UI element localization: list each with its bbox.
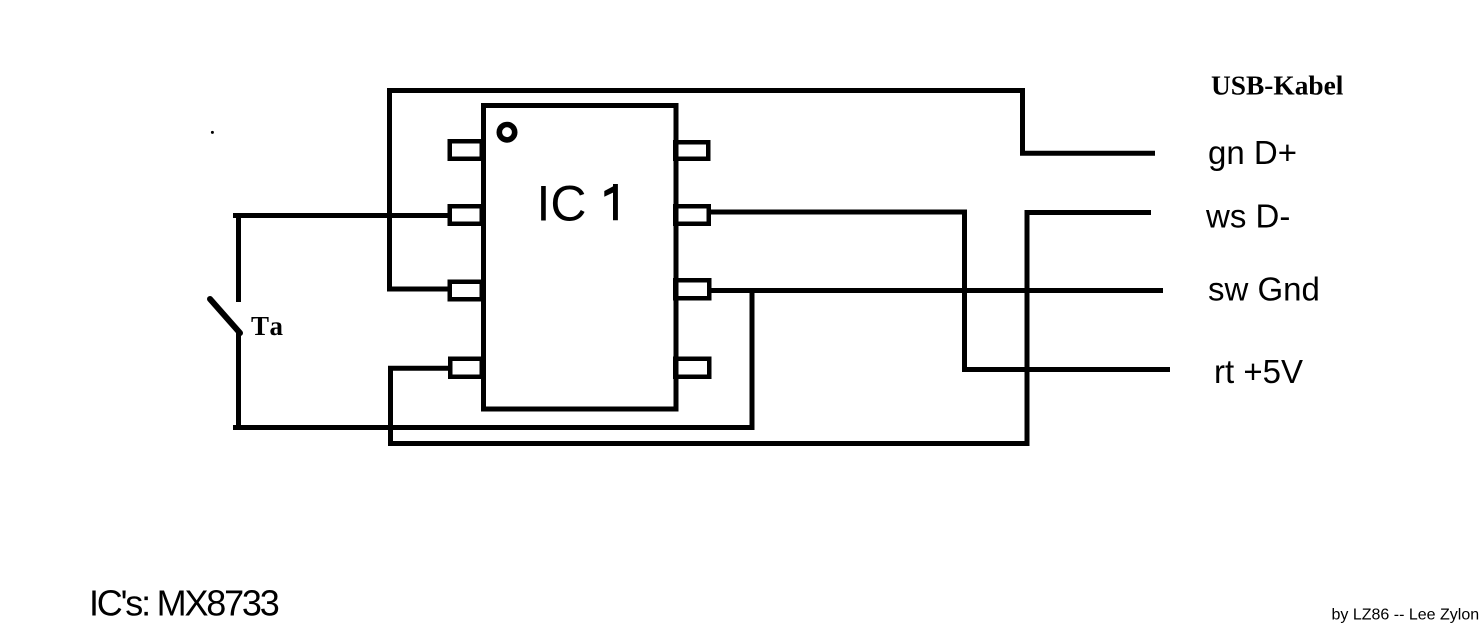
IC U1 body (484, 106, 677, 410)
wire: pin2-left to switch top (233, 213, 450, 302)
IC1 pin 2 left (450, 206, 482, 224)
svg-text:USB-Kabel: USB-Kabel (1211, 71, 1344, 101)
wire: pin7-right to vertical, down, to rt +5V line (710, 212, 1170, 370)
IC1 pin 3 left (450, 282, 482, 300)
wire: switch bottom to vertical riser right of IC (233, 288, 755, 430)
svg-text:by LZ86 -- Lee Zylon: by LZ86 -- Lee Zylon (1332, 607, 1480, 624)
IC1 pin 1 left (450, 141, 482, 159)
IC1 pin 6 right (675, 280, 709, 298)
IC1 pin 7 right (675, 206, 709, 224)
svg-text:IC: IC (537, 176, 587, 232)
label IC 1 digit (604, 184, 618, 220)
IC1 pin 5 right (675, 359, 709, 377)
stray ink dot (211, 131, 214, 134)
wire: pin6-right straight to sw Gnd line (710, 288, 1163, 293)
IC1 pin 1 orientation dot (499, 125, 514, 140)
wire: pin4-left down to bottom bus, right, up to ws D- line (391, 210, 1152, 444)
switch Ta blade (210, 299, 240, 333)
svg-text:ws D-: ws D- (1205, 198, 1290, 235)
svg-text:Ta: Ta (251, 311, 286, 341)
svg-text:sw Gnd: sw Gnd (1208, 271, 1320, 308)
svg-text:gn D+: gn D+ (1208, 134, 1297, 171)
IC1 pin 8 right (675, 142, 708, 159)
wire: pin3-left to left vertical, up, top bus, down to D+ line (390, 91, 1156, 290)
svg-text:IC's: MX8733: IC's: MX8733 (89, 583, 279, 624)
IC1 pin 4 left (450, 359, 482, 377)
svg-text:rt +5V: rt +5V (1214, 353, 1303, 390)
